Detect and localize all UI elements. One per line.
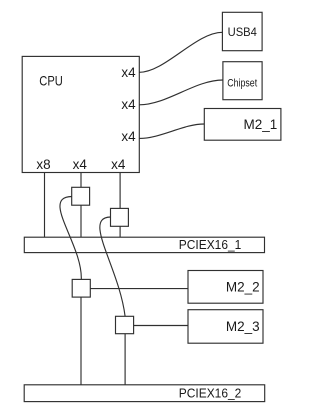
svg-text:M2_1: M2_1 <box>244 117 278 132</box>
svg-text:x4: x4 <box>73 157 88 172</box>
svg-text:USB4: USB4 <box>228 25 258 39</box>
svg-text:Chipset: Chipset <box>227 77 257 89</box>
svg-text:x4: x4 <box>121 65 136 80</box>
svg-text:CPU: CPU <box>39 72 63 88</box>
svg-text:x4: x4 <box>121 129 136 144</box>
svg-text:PCIEX16_2: PCIEX16_2 <box>179 386 242 401</box>
svg-text:x4: x4 <box>121 97 136 112</box>
svg-text:PCIEX16_1: PCIEX16_1 <box>179 237 242 252</box>
svg-text:M2_3: M2_3 <box>226 319 260 334</box>
svg-text:x4: x4 <box>111 157 126 172</box>
svg-text:x8: x8 <box>36 157 50 172</box>
svg-text:M2_2: M2_2 <box>226 279 260 294</box>
